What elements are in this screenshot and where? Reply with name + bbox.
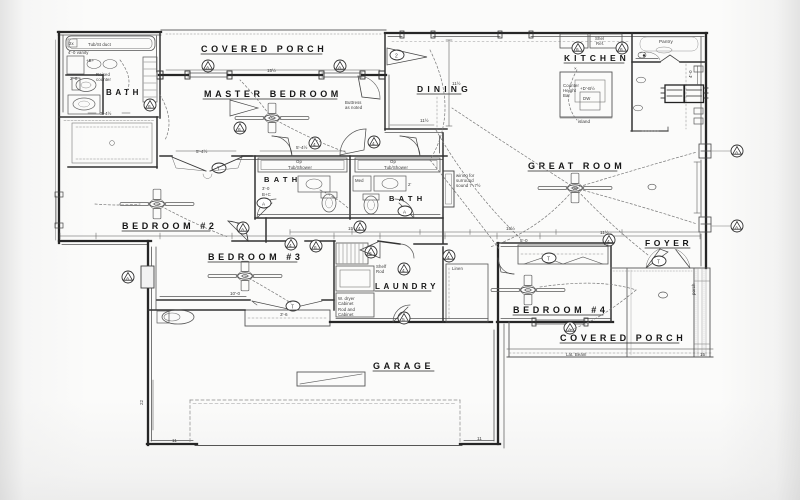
fixture: island	[560, 72, 612, 117]
door: master entry	[340, 129, 366, 155]
svg-text:COVERED PORCH: COVERED PORCH	[201, 44, 327, 54]
wall: garage bottom	[147, 441, 500, 446]
dim: kitchen vertical	[688, 66, 701, 84]
svg-text:5'-0: 5'-0	[520, 238, 528, 243]
wall: left outer upper	[56, 32, 64, 243]
svg-text:LAUNDRY: LAUNDRY	[375, 282, 439, 291]
svg-text:15: 15	[700, 352, 706, 357]
door: bath A lower door	[257, 199, 276, 218]
wall: bedroom4 right / porch upper-left	[611, 243, 631, 356]
svg-text:porch: porch	[691, 283, 696, 295]
svg-text:Tub/Shower: Tub/Shower	[384, 165, 408, 170]
fixture: bath B closet	[353, 176, 371, 191]
svg-text:COVERED PORCH: COVERED PORCH	[560, 333, 686, 343]
svg-text:4: 4	[313, 142, 316, 148]
fixture: master toilet	[72, 78, 96, 92]
door: bed2 door	[228, 221, 248, 241]
window: right wall lower	[699, 217, 711, 232]
marker: foyer T	[652, 256, 666, 266]
svg-text:2: 2	[395, 54, 398, 60]
svg-text:+B+: +B+	[86, 58, 95, 63]
svg-text:Linen: Linen	[452, 266, 464, 271]
svg-text:Rod: Rod	[376, 269, 385, 274]
dim: corridor string	[60, 225, 700, 239]
fixture: attic access	[297, 372, 365, 386]
fixture: bath A tub	[258, 158, 347, 172]
svg-text:FOYER: FOYER	[645, 238, 692, 248]
wall: garage right	[494, 243, 504, 448]
svg-text:Cabinet: Cabinet	[338, 301, 354, 306]
svg-text:Pantry: Pantry	[659, 39, 673, 44]
wall: bath block top	[58, 32, 161, 35]
door: bath A door	[272, 136, 292, 156]
label: COVERED PORCH bottom	[560, 333, 686, 343]
svg-text:B+C: B+C	[262, 192, 271, 197]
wall: baths bottom	[255, 215, 443, 219]
svg-text:BATH: BATH	[106, 88, 142, 97]
svg-text:BEDROOM #4: BEDROOM #4	[513, 305, 609, 315]
svg-text:22: 22	[139, 399, 144, 405]
fixture: master shower	[68, 95, 100, 114]
fixture: kitchen nook	[631, 64, 686, 131]
svg-text:counter: counter	[96, 77, 112, 82]
fixture: bath B tub	[355, 158, 440, 172]
wall: right outer	[701, 33, 706, 268]
svg-text:4'-0: 4'-0	[688, 70, 693, 78]
note: niche wiring	[456, 173, 481, 188]
label: GREAT ROOM	[528, 161, 625, 171]
wall: porch lower left edge	[508, 322, 510, 357]
wall: garage top left	[148, 309, 245, 311]
fan: master bedroom	[235, 103, 309, 133]
label: FOYER	[645, 238, 692, 248]
fixture: water heater	[157, 310, 194, 324]
fan: bedroom4	[491, 275, 565, 305]
wall: closet bottom	[68, 166, 157, 168]
door: laundry-garage arc	[393, 305, 410, 322]
dim: right wall inner	[694, 162, 700, 213]
marker: porch A left	[202, 60, 214, 72]
ceiling dash: dining-kitchen	[392, 41, 628, 43]
marker: left A	[122, 266, 154, 288]
svg-text:T: T	[657, 260, 660, 266]
svg-text:6: 6	[620, 47, 623, 53]
svg-text:Op: Op	[390, 159, 396, 164]
wall: porch bottom / master top	[157, 71, 386, 79]
wall: pantry	[632, 33, 706, 131]
label: LAUNDRY	[375, 282, 439, 291]
dim: bed3	[230, 291, 241, 296]
door: bath B door	[400, 136, 420, 156]
svg-text:4'-0 vanity: 4'-0 vanity	[68, 50, 89, 55]
label: BATH A	[264, 175, 301, 184]
wall: laundry left	[333, 241, 335, 310]
door: porch-master door	[358, 76, 380, 99]
fan: great room	[538, 173, 612, 203]
label: GARAGE	[373, 361, 434, 371]
wall: porch top edge	[161, 30, 386, 34]
wall: bedroom4 bottom	[497, 318, 613, 326]
door: laundry door	[360, 241, 414, 258]
svg-text:5: 5	[402, 317, 405, 323]
marker: porch A right	[334, 60, 346, 72]
wall: closet right	[156, 117, 158, 168]
svg-text:4: 4	[447, 255, 450, 261]
fixture: master linen shelves	[143, 57, 157, 102]
label: BEDROOM 2	[122, 221, 218, 231]
svg-text:2': 2'	[408, 182, 411, 187]
door: bath B lower door	[395, 199, 414, 218]
label: DINING	[417, 84, 472, 94]
svg-text:Med: Med	[355, 178, 364, 183]
svg-text:BATH: BATH	[389, 194, 426, 203]
fixture: master vanity	[67, 50, 117, 74]
label: BEDROOM 4	[513, 305, 609, 315]
svg-text:6: 6	[148, 104, 151, 110]
door: dining door	[387, 48, 427, 65]
fixture: closet shelves	[72, 123, 152, 163]
wall: laundry bottom / garage top right	[330, 319, 492, 323]
door: bed4 door	[498, 258, 514, 274]
marker: right wall A lower	[712, 220, 743, 232]
door: bed3 patio doors	[252, 301, 322, 309]
svg-text:Bar: Bar	[563, 93, 570, 98]
marker: dining 2	[390, 50, 404, 60]
dim: dining-bath extension	[390, 97, 437, 130]
svg-text:Tub/Shower: Tub/Shower	[288, 165, 312, 170]
wall: master bath inner	[66, 75, 103, 114]
fan: bedroom2	[120, 189, 194, 219]
marker: porch circ	[648, 184, 668, 298]
svg-text:BEDROOM #3: BEDROOM #3	[208, 252, 304, 262]
dim: dining vertical	[446, 40, 461, 126]
marker: hall 4a	[309, 137, 321, 149]
door: closet entry triangle	[230, 100, 258, 116]
wall: bath A left	[254, 156, 256, 219]
wall: laundry right	[442, 247, 444, 322]
marker: bath B ellipse	[398, 206, 412, 216]
fixture: bed4 closet	[518, 238, 608, 264]
marker: closet 4	[443, 250, 455, 262]
svg-text:4: 4	[607, 239, 610, 245]
wall: baths middle	[349, 156, 351, 219]
dim: garage left	[139, 380, 153, 430]
wall: bedroom4 top	[497, 243, 613, 247]
svg-text:3'-4½: 3'-4½	[100, 110, 112, 116]
label: pantry	[640, 37, 698, 53]
door: hall double doors	[172, 157, 242, 179]
svg-text:6: 6	[314, 245, 317, 251]
label: COVERED PORCH top	[201, 44, 327, 54]
wall: garage left outer	[148, 241, 156, 445]
svg-text:GARAGE: GARAGE	[373, 361, 434, 371]
marker: hall 4b	[285, 238, 297, 250]
marker: right wall A upper	[712, 145, 743, 157]
wall: master-dining divider	[385, 33, 389, 130]
svg-text:15½: 15½	[267, 67, 276, 73]
svg-text:10'-0: 10'-0	[230, 291, 241, 296]
svg-text:4: 4	[372, 141, 375, 147]
svg-text:sound 7'-7½: sound 7'-7½	[456, 183, 481, 188]
label: BATH B	[389, 194, 426, 203]
svg-text:6: 6	[238, 127, 241, 133]
door: front door	[646, 248, 690, 268]
wall: top main (dining-kitchen)	[385, 31, 707, 38]
wall: bed2 right piece	[265, 218, 267, 242]
wall: bath block right	[157, 33, 161, 118]
label: KITCHEN	[564, 53, 630, 63]
svg-text:11½: 11½	[452, 80, 461, 86]
svg-text:5'-4½: 5'-4½	[296, 144, 308, 150]
label: BATH master	[106, 88, 142, 97]
marker: laundry 6	[365, 246, 377, 258]
svg-text:11: 11	[477, 436, 482, 441]
door: pantry door	[638, 52, 680, 62]
svg-text:Tub/St duct: Tub/St duct	[88, 42, 112, 47]
marker: bed4 A	[564, 322, 576, 334]
svg-text:DINING: DINING	[417, 84, 472, 94]
svg-text:Cabinet: Cabinet	[338, 312, 354, 317]
marker: hall 4c	[354, 221, 366, 233]
svg-text:3'-0: 3'-0	[262, 186, 270, 191]
porch bottom band	[507, 349, 713, 357]
svg-text:11½: 11½	[420, 117, 429, 123]
svg-text:BEDROOM #2: BEDROOM #2	[122, 221, 218, 231]
wall: dining bottom corner	[385, 129, 447, 133]
fixture: double appliance	[661, 85, 708, 103]
window: right wall upper	[699, 144, 711, 158]
svg-text:DW: DW	[583, 96, 591, 101]
wall: foyer bottom / porch top	[611, 268, 694, 271]
wall: closet top	[59, 117, 158, 121]
fixture: bath A toilet	[321, 192, 337, 212]
svg-text:as noted: as noted	[345, 105, 363, 110]
svg-text:11: 11	[172, 438, 177, 443]
svg-text:4: 4	[358, 226, 361, 232]
fixture: bath B toilet	[363, 194, 379, 214]
marker: T hall	[212, 163, 226, 173]
fixture: wall cabinets	[694, 66, 703, 124]
svg-text:4: 4	[289, 243, 292, 249]
fixture: hall closet	[446, 264, 488, 322]
svg-text:GREAT ROOM: GREAT ROOM	[528, 161, 625, 171]
fixture: niche great room	[443, 171, 454, 207]
svg-text:T: T	[547, 257, 550, 263]
svg-text:3'-6: 3'-6	[280, 312, 288, 317]
wall: baths top	[232, 156, 447, 160]
svg-text:Lat. Beam: Lat. Beam	[566, 352, 587, 357]
svg-text:Ref.: Ref.	[596, 41, 604, 46]
marker: bed4 T	[542, 253, 556, 263]
label: MASTER BEDROOM	[203, 89, 342, 99]
svg-text:6: 6	[576, 47, 579, 53]
note: buttress	[345, 100, 363, 110]
wall: bath B right	[440, 133, 444, 243]
marker: greatroom 4	[603, 234, 615, 246]
fixture: washer dryer	[336, 266, 374, 317]
fixture: master tub	[66, 36, 155, 51]
garage door dashed	[190, 400, 460, 444]
fixture: linen shelves	[336, 243, 368, 264]
porch right column strip	[694, 268, 710, 357]
svg-text:island: island	[578, 119, 590, 124]
fixture: bath A vanity	[262, 176, 330, 197]
marker: master 6	[234, 122, 246, 134]
svg-text:2'-8: 2'-8	[70, 76, 78, 81]
marker: bed2 A	[237, 222, 249, 234]
fixture: bath B vanity	[374, 176, 411, 191]
svg-text:KITCHEN: KITCHEN	[564, 53, 630, 63]
note: vanity texts	[70, 72, 112, 82]
note: lat beam	[566, 352, 706, 357]
dim: baths top	[260, 144, 345, 151]
wall: bed3 bottom	[157, 297, 334, 301]
marker: kitchen 6	[572, 42, 584, 54]
window: bed2 left wall	[55, 192, 63, 228]
svg-text:+D'-B½: +D'-B½	[580, 86, 595, 91]
svg-text:2x: 2x	[69, 41, 74, 46]
marker: pantry 6	[616, 42, 628, 54]
wall: hall piece below closet	[160, 148, 252, 156]
wall: corridor	[232, 241, 447, 244]
marker: hall 4d	[368, 136, 380, 148]
marker: bed3 T	[286, 301, 300, 311]
dim: porch bottom	[166, 67, 380, 73]
marker: hall 6b	[310, 240, 322, 252]
note: laundry top	[376, 264, 387, 274]
wiring curves	[95, 50, 697, 330]
marker: laundry 5	[398, 312, 410, 324]
fan: bedroom3	[208, 261, 282, 291]
svg-text:4: 4	[402, 268, 405, 274]
fixture: stoop	[245, 310, 330, 326]
marker: laundry 4	[398, 263, 410, 275]
marker: bath A ellipse	[257, 198, 271, 208]
svg-text:BATH: BATH	[264, 175, 301, 184]
dim: island top	[560, 66, 612, 124]
wall: left step bottom bedroom2	[59, 241, 151, 245]
marker: bath 6	[144, 99, 156, 111]
dim: closet 3-4	[88, 110, 130, 116]
fixture: fridge	[560, 34, 622, 48]
svg-text:MASTER BEDROOM: MASTER BEDROOM	[204, 89, 342, 99]
label: BEDROOM 3	[208, 252, 304, 262]
dim: garage bottom ticks	[172, 283, 696, 443]
svg-text:Op: Op	[296, 159, 302, 164]
